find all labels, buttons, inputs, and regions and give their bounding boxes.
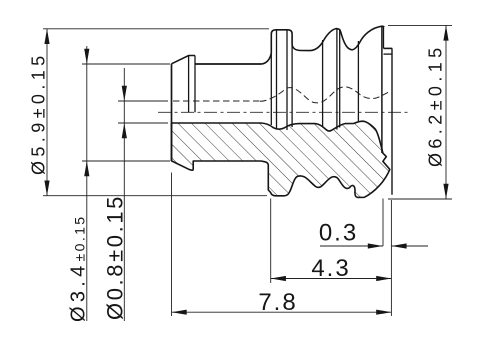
rib3 top profile	[353, 26, 385, 50]
centerline (part axis)	[158, 111, 410, 113]
rib3 flank edge	[357, 41, 359, 123]
svg-text:Ø0.8±0.15: Ø0.8±0.15	[103, 194, 128, 320]
rib1 crest edge left	[276, 30, 278, 130]
rib2 flank edge	[322, 40, 324, 127]
rib1 crest edge right	[286, 30, 288, 130]
hatched section band (lower half of seal in section)	[172, 121, 390, 197]
end disc shoulder line	[384, 53, 393, 55]
svg-text:Ø5.9±0.15: Ø5.9±0.15	[29, 51, 49, 175]
rib1 left wall edge	[270, 53, 272, 125]
svg-text:Ø6.2±0.15: Ø6.2±0.15	[426, 43, 446, 167]
dimension Ø6.2 arrow top	[443, 25, 448, 40]
end disc right face	[391, 48, 393, 194]
rib1 right wall edge	[291, 45, 293, 127]
end disc top	[384, 47, 393, 49]
rib3 right wall	[381, 26, 383, 153]
dimension 7.8 extension line left	[171, 173, 173, 317]
dimension 0.3 left line	[320, 245, 383, 247]
dimension 0.3 arrow right	[391, 243, 406, 248]
dimension Ø0.8 extension top	[118, 100, 168, 102]
dimension 0.3 extension line	[382, 199, 384, 247]
flange rear face line 2	[194, 56, 196, 113]
dimension Ø6.2 line	[445, 25, 447, 199]
dimension Ø0.8 line	[123, 68, 125, 321]
hidden bore line straight	[173, 100, 260, 102]
dimension Ø3.4 extension top	[82, 63, 170, 65]
end disc left face	[383, 27, 385, 48]
dimension Ø6.2 extension bottom	[388, 198, 452, 200]
dimension 4.3 extension line	[270, 199, 272, 284]
dimension 7.8 extension line right	[390, 200, 392, 316]
barrel top	[195, 63, 262, 65]
dimension 7.8 arrow left	[172, 310, 187, 315]
flange chamfer and top	[172, 56, 196, 64]
dimension 0.3 right line	[391, 245, 428, 247]
dimension 4.3 line	[271, 278, 392, 280]
dimension 4.3 arrow left	[271, 276, 286, 281]
dimension Ø6.2 arrow bottom	[443, 184, 448, 199]
dimension Ø5.9 line	[46, 29, 48, 196]
rib2 crest edge left	[336, 29, 338, 130]
dimension Ø5.9 arrow bottom	[44, 181, 49, 196]
dimension Ø3.4 extension bottom	[82, 160, 170, 162]
dimension 0.3 arrow left	[368, 243, 383, 248]
hidden bore wavy contour	[260, 87, 388, 103]
dimension Ø3.4 line	[86, 46, 88, 321]
dimension Ø0.8 arrow top	[122, 86, 127, 101]
dimension Ø0.8 extension bottom	[118, 122, 168, 124]
dimension Ø5.9 extension line bottom	[43, 195, 267, 197]
svg-text:7.8: 7.8	[258, 289, 297, 316]
dimension Ø5.9 extension line top	[43, 28, 269, 30]
svg-text:4.3: 4.3	[311, 255, 350, 282]
dimension Ø3.4 arrow top	[84, 49, 89, 64]
dimension Ø3.4 arrow bottom	[84, 161, 89, 176]
rib2 top profile	[310, 29, 353, 51]
dimension 7.8 arrow right	[376, 310, 391, 315]
rib2 crest edge right	[339, 30, 341, 128]
dimension Ø0.8 arrow bottom	[122, 123, 127, 138]
seal left end face	[171, 64, 173, 161]
dimension Ø6.2 extension top	[388, 24, 452, 26]
flange rear face line 1	[188, 56, 190, 113]
dimension 7.8 line	[172, 311, 392, 313]
dimension Ø5.9 arrow top	[44, 29, 49, 44]
svg-text:Ø3.4±0.15: Ø3.4±0.15	[68, 215, 90, 323]
dimension 4.3 arrow right	[376, 276, 391, 281]
svg-text:0.3: 0.3	[319, 220, 358, 247]
rib1 top profile	[262, 30, 311, 64]
